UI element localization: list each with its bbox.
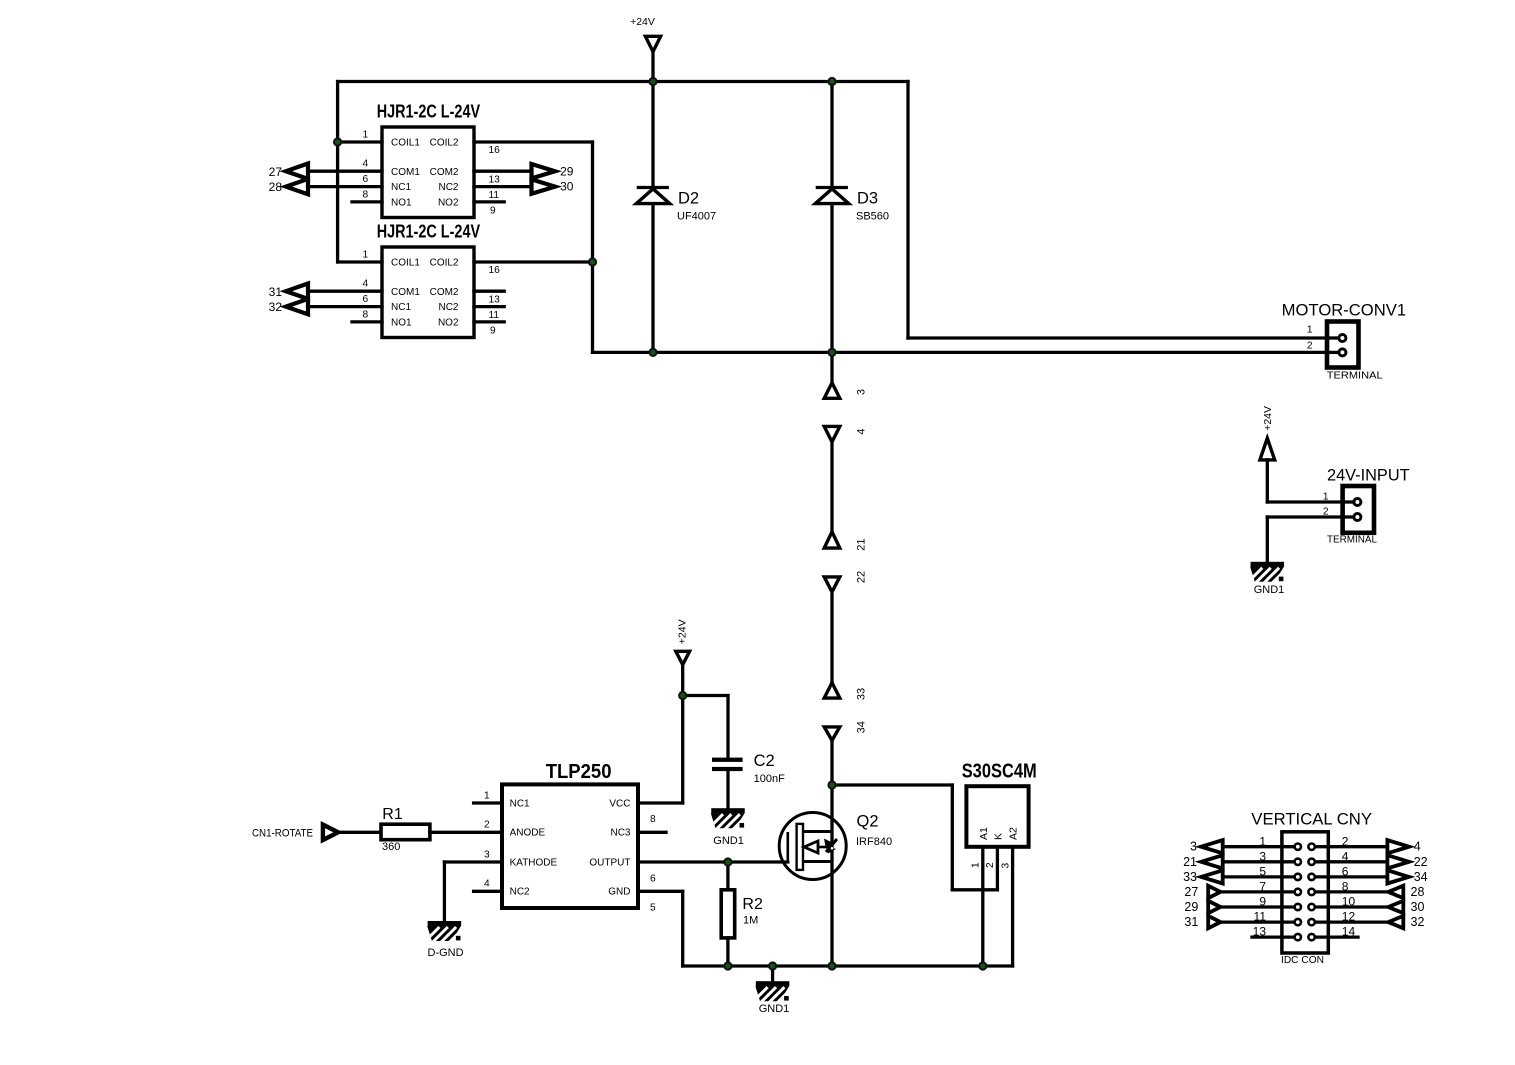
net 29 arrow	[532, 164, 556, 178]
svg-text:SB560: SB560	[856, 211, 889, 223]
wire ground rail	[683, 964, 1013, 967]
svg-text:S30SC4M: S30SC4M	[962, 761, 1037, 783]
wire +24V top rail	[338, 80, 908, 83]
wire S30SC4M pin2 K lead	[996, 847, 999, 890]
svg-text:COM2: COM2	[430, 287, 459, 298]
pin 1 IDC circle	[1295, 844, 1301, 850]
wire S30SC4M link vertical	[951, 785, 954, 890]
junction +24V / C2	[679, 692, 686, 699]
wire IDC pin 8 (net 28)	[1312, 890, 1388, 893]
wire TLP250 GND pin5	[638, 890, 683, 893]
svg-text:NC2: NC2	[438, 182, 458, 193]
svg-text:NO1: NO1	[391, 318, 412, 329]
svg-text:9: 9	[1259, 895, 1266, 909]
connector 24V-INPUT	[1323, 467, 1410, 546]
wire 24V-INPUT pin2 to GND1	[1266, 517, 1269, 562]
svg-text:9: 9	[490, 326, 496, 337]
wire +24V riser to VCC	[681, 665, 684, 803]
wire IDC pin 4 (net 22)	[1312, 860, 1387, 863]
wire R2 bottom lead	[726, 938, 729, 966]
svg-text:3: 3	[1190, 840, 1197, 854]
svg-text:30: 30	[1411, 900, 1425, 914]
net 28 arrow	[1388, 886, 1403, 898]
power +24V (TLP250)	[676, 619, 690, 664]
junction COIL1 tee	[334, 138, 341, 145]
svg-text:11: 11	[1254, 910, 1267, 924]
pin 12 IDC circle	[1308, 919, 1314, 925]
svg-text:1: 1	[1259, 834, 1266, 848]
wire R2 top lead	[726, 862, 729, 890]
net CN1-ROTATE arrow	[323, 825, 338, 840]
ground D-GND	[421, 921, 464, 945]
svg-text:NC3: NC3	[610, 828, 630, 839]
rectifier D1 S30SC4M	[962, 761, 1037, 869]
pin 10 IDC circle	[1308, 904, 1314, 910]
svg-text:6: 6	[650, 874, 656, 885]
wire IDC pin 2 (net 4)	[1312, 845, 1387, 848]
wire HJR1-2C L-24V pin 16 COIL2	[474, 140, 593, 143]
pin 6 IDC circle	[1308, 874, 1314, 880]
svg-text:D-GND: D-GND	[428, 947, 464, 959]
svg-text:D2: D2	[678, 190, 699, 208]
ground GND1 (24V input)	[1244, 562, 1287, 586]
svg-text:100nF: 100nF	[754, 773, 785, 785]
net 34 port arrow	[824, 727, 840, 741]
wire S30SC4M pin1 A1 to rail	[981, 847, 984, 966]
junction rail / Q2 source	[828, 962, 835, 969]
svg-text:4: 4	[856, 429, 868, 435]
svg-text:9: 9	[490, 206, 496, 217]
svg-text:IRF840: IRF840	[856, 836, 892, 848]
svg-text:4: 4	[1342, 849, 1349, 863]
relay HJR1-2C L-24V (coil at y=127)	[363, 100, 501, 217]
net 34 arrow	[1387, 870, 1409, 883]
pin 3 IDC circle	[1295, 859, 1301, 865]
wire +24V to C2	[683, 694, 728, 697]
net 21 arrow	[1201, 855, 1223, 868]
wire R1 to TLP250 ANODE	[430, 831, 502, 834]
junction rail / S30SC4M A1	[979, 962, 986, 969]
svg-text:NO2: NO2	[438, 318, 459, 329]
net 3 arrow	[1201, 840, 1223, 853]
svg-text:3: 3	[1000, 863, 1011, 869]
wire HJR1-2C L-24V pin 16 COIL2	[474, 260, 593, 263]
svg-text:14: 14	[1342, 925, 1356, 939]
wire IDC pin 1 (net 3)	[1223, 845, 1297, 848]
wire +24V symbol drop	[651, 52, 654, 82]
svg-text:TERMINAL: TERMINAL	[1327, 534, 1377, 546]
svg-text:NO2: NO2	[438, 198, 459, 209]
svg-text:8: 8	[650, 814, 656, 825]
opto-coupler U1 TLP250	[484, 761, 656, 913]
relay HJR1-2C L-24V (coil at y=247)	[363, 220, 501, 337]
wire link to S30SC4M pin2 K	[952, 888, 997, 891]
net 27 arrow	[286, 164, 308, 179]
svg-text:COIL1: COIL1	[391, 258, 420, 269]
wire HJR1-2C L-24V pin 6 NC1	[308, 185, 382, 188]
svg-text:A2: A2	[1008, 827, 1020, 840]
svg-text:+24V: +24V	[1262, 406, 1274, 431]
wire drain node to S30SC4M	[832, 783, 952, 786]
wire IDC pin 12 (net 32)	[1312, 920, 1388, 923]
svg-text:KATHODE: KATHODE	[510, 857, 558, 868]
svg-text:+24V: +24V	[677, 619, 689, 644]
svg-text:4: 4	[1414, 840, 1421, 854]
pin 9 IDC circle	[1295, 904, 1301, 910]
svg-text:COM2: COM2	[430, 167, 459, 178]
svg-text:COM1: COM1	[391, 287, 420, 298]
net 33 port arrow	[824, 683, 840, 699]
svg-text:27: 27	[269, 165, 283, 179]
pin 11 IDC circle	[1295, 919, 1301, 925]
wire HJR1-2C L-24V pin 9 NO2 stub	[474, 200, 504, 203]
svg-text:8: 8	[363, 189, 369, 200]
svg-text:OUTPUT: OUTPUT	[589, 857, 630, 868]
svg-text:COIL2: COIL2	[430, 138, 459, 149]
ground GND1 (C2)	[705, 808, 748, 832]
pin 2 24V-INPUT	[1354, 514, 1361, 521]
net 4 port arrow	[824, 426, 840, 442]
wire TLP250 pin4 stub	[474, 890, 502, 893]
svg-text:33: 33	[1183, 870, 1197, 884]
svg-text:22: 22	[1414, 855, 1428, 869]
wire IDC pin 5 (net 33)	[1223, 875, 1297, 878]
svg-text:29: 29	[560, 164, 574, 178]
capacitor C2	[712, 752, 785, 785]
svg-text:D3: D3	[857, 190, 878, 208]
net 4 arrow	[1387, 840, 1409, 853]
junction rail / R2	[724, 962, 731, 969]
wire IDC pin 7 (net 27)	[1220, 890, 1297, 893]
wire IDC pin 3 (net 21)	[1223, 860, 1297, 863]
wire MOTOR-CONV1 pin1 inside stub	[1329, 336, 1341, 339]
svg-text:CN1-ROTATE: CN1-ROTATE	[252, 827, 313, 839]
wire IDC pin 10 (net 30)	[1312, 905, 1388, 908]
svg-text:2: 2	[484, 820, 490, 831]
svg-text:31: 31	[1184, 915, 1198, 929]
svg-text:NC2: NC2	[510, 887, 530, 898]
svg-text:34: 34	[1414, 870, 1428, 884]
wire KATHODE to D-GND	[443, 862, 446, 921]
svg-text:3: 3	[484, 849, 490, 860]
svg-text:4: 4	[363, 159, 369, 170]
net 31 arrow	[286, 284, 308, 299]
junction bottom rail / D3	[828, 349, 835, 356]
wire HJR1-2C L-24V pin 4 COM1	[308, 290, 382, 293]
svg-text:NC1: NC1	[510, 798, 530, 809]
svg-text:31: 31	[269, 285, 283, 299]
svg-text:A1: A1	[978, 827, 990, 840]
net 3 port arrow	[824, 383, 840, 399]
junction rail / GND1	[769, 962, 776, 969]
wire HJR1-2C L-24V pin 1 COIL1	[338, 140, 382, 143]
wire HJR1-2C L-24V pin 11 NC2	[474, 185, 532, 188]
svg-text:6: 6	[363, 294, 369, 305]
svg-text:TLP250: TLP250	[546, 761, 612, 783]
svg-text:R2: R2	[742, 896, 763, 913]
svg-text:COIL1: COIL1	[391, 138, 420, 149]
wire HJR1-2C L-24V pin 4 COM1	[308, 170, 382, 173]
svg-text:2: 2	[985, 862, 996, 868]
wire left vertical to relay coils	[336, 82, 339, 263]
pin 1 MOTOR-CONV1	[1339, 335, 1346, 342]
svg-text:10: 10	[1342, 895, 1356, 909]
net 29 arrow	[1208, 901, 1220, 913]
svg-text:HJR1-2C L-24V: HJR1-2C L-24V	[377, 100, 481, 121]
net 28 arrow	[286, 179, 308, 194]
svg-text:1: 1	[363, 129, 369, 140]
svg-text:+24V: +24V	[630, 16, 655, 28]
svg-text:NC1: NC1	[391, 302, 411, 313]
svg-text:27: 27	[1184, 885, 1198, 899]
svg-text:13: 13	[489, 174, 501, 185]
svg-text:11: 11	[489, 190, 500, 201]
svg-text:K: K	[992, 833, 1004, 840]
net 32 arrow	[286, 299, 308, 314]
svg-text:GND1: GND1	[759, 1003, 790, 1015]
wire 24V-INPUT pin 1	[1267, 500, 1353, 503]
wire +24V to 24V-INPUT pin1	[1266, 460, 1269, 502]
svg-text:4: 4	[363, 279, 369, 290]
wire HJR1-2C L-24V pin 13 COM2	[474, 170, 532, 173]
ground GND1 (rail)	[750, 981, 793, 1005]
svg-text:4: 4	[484, 879, 490, 890]
junction COIL2 tee	[589, 258, 596, 265]
svg-text:GND: GND	[608, 887, 630, 898]
junction gate / R2	[724, 858, 731, 865]
connector MOTOR-CONV1	[1282, 301, 1406, 381]
svg-text:11: 11	[489, 310, 500, 321]
pin 7 IDC circle	[1295, 889, 1301, 895]
wire S30SC4M pin3 A2 to rail	[1011, 847, 1014, 966]
svg-text:UF4007: UF4007	[677, 211, 716, 223]
svg-text:6: 6	[363, 174, 369, 185]
net 30 arrow	[532, 179, 556, 193]
connector VERTICAL CNY IDC CON	[1251, 810, 1372, 966]
wire net34 to drain node	[830, 740, 833, 785]
wire right vertical to MOTOR-CONV1 pin1	[906, 82, 909, 339]
wire Q2 drain-source vertical	[830, 785, 833, 966]
svg-text:30: 30	[560, 180, 574, 194]
svg-text:34: 34	[856, 721, 868, 733]
wire TLP250 OUTPUT to Q2 gate	[638, 860, 788, 863]
wire net4-net21	[830, 442, 833, 532]
pin 13 IDC circle	[1295, 934, 1301, 940]
wire TLP250 VCC pin8	[638, 801, 683, 804]
svg-text:1: 1	[484, 790, 490, 801]
wire pin5 down to ground rail	[681, 891, 684, 966]
svg-text:7: 7	[1259, 880, 1266, 894]
wire net22-net33	[830, 592, 833, 683]
svg-text:MOTOR-CONV1: MOTOR-CONV1	[1282, 301, 1406, 319]
wire HJR1-2C L-24V pin 1 COIL1	[338, 260, 382, 263]
junction rail / D3	[828, 78, 835, 85]
svg-text:C2: C2	[754, 752, 775, 770]
svg-text:3: 3	[856, 389, 868, 395]
net 22 port arrow	[824, 577, 840, 592]
resistor R1	[381, 806, 430, 853]
net 32 arrow	[1388, 916, 1403, 928]
net 33 arrow	[1201, 870, 1223, 883]
svg-text:5: 5	[650, 902, 656, 913]
diode D2	[636, 188, 716, 223]
wire IDC pin 6 (net 34)	[1312, 875, 1387, 878]
svg-text:GND1: GND1	[713, 835, 744, 847]
wire TLP250 pin1 stub	[474, 801, 502, 804]
pin 4 IDC circle	[1308, 859, 1314, 865]
wire C2 bottom lead	[726, 771, 729, 808]
pin 5 IDC circle	[1295, 874, 1301, 880]
svg-text:21: 21	[1183, 855, 1197, 869]
svg-text:28: 28	[1411, 885, 1425, 899]
svg-text:12: 12	[1342, 910, 1356, 924]
svg-text:Q2: Q2	[857, 813, 879, 831]
svg-text:VCC: VCC	[609, 798, 630, 809]
pin 2 IDC circle	[1308, 844, 1314, 850]
net 21 port arrow	[824, 532, 840, 548]
svg-text:ANODE: ANODE	[510, 828, 546, 839]
svg-text:R1: R1	[382, 806, 403, 823]
power +24V (top)	[630, 16, 661, 52]
wire COIL2 vertical to bottom rail	[591, 142, 594, 352]
svg-text:HJR1-2C L-24V: HJR1-2C L-24V	[377, 220, 481, 241]
svg-text:NO1: NO1	[391, 198, 412, 209]
svg-text:1M: 1M	[743, 915, 758, 927]
wire 24V-INPUT pin2 inside stub	[1344, 515, 1356, 518]
svg-text:IDC CON: IDC CON	[1281, 954, 1324, 966]
transistor Q2 IRF840	[779, 813, 892, 880]
svg-text:1: 1	[970, 862, 981, 868]
wire IDC pin 11 (net 31)	[1220, 920, 1297, 923]
svg-text:22: 22	[856, 571, 868, 583]
wire MOTOR-CONV1 pin 1	[908, 336, 1339, 339]
wire rail to GND1	[771, 966, 774, 981]
svg-text:24V-INPUT: 24V-INPUT	[1327, 467, 1410, 485]
svg-text:8: 8	[363, 309, 369, 320]
wire CN1-ROTATE to R1	[338, 831, 381, 834]
diode D3	[815, 188, 889, 223]
power +24V (24V-INPUT)	[1260, 406, 1275, 460]
svg-text:32: 32	[1411, 915, 1425, 929]
wire IDC pin 14 stub	[1312, 935, 1358, 938]
svg-text:5: 5	[1259, 865, 1266, 879]
net 22 arrow	[1387, 855, 1409, 868]
wire 24V-INPUT pin1 inside stub	[1344, 500, 1356, 503]
svg-text:1: 1	[1307, 325, 1313, 336]
wire HJR1-2C L-24V pin 11 stub	[474, 305, 504, 308]
svg-text:2: 2	[1307, 340, 1313, 351]
svg-text:COM1: COM1	[391, 167, 420, 178]
svg-text:16: 16	[489, 145, 501, 156]
svg-text:COIL2: COIL2	[430, 258, 459, 269]
svg-text:1: 1	[363, 249, 369, 260]
svg-text:21: 21	[856, 538, 868, 550]
wire HJR1-2C L-24V pin 8 NO1 stub	[352, 200, 382, 203]
svg-text:6: 6	[1342, 865, 1349, 879]
net 31 arrow	[1208, 916, 1220, 928]
svg-text:13: 13	[489, 294, 501, 305]
svg-text:NC1: NC1	[391, 182, 411, 193]
svg-text:1: 1	[1323, 491, 1329, 502]
svg-text:TERMINAL: TERMINAL	[1327, 370, 1383, 382]
net 30 arrow	[1388, 901, 1403, 913]
wire D2 branch	[651, 82, 654, 353]
wire IDC pin 9 (net 29)	[1220, 905, 1297, 908]
svg-text:3: 3	[1259, 849, 1266, 863]
wire HJR1-2C L-24V pin 8 NO1 stub	[352, 320, 382, 323]
wire 24V-INPUT pin 2	[1267, 515, 1353, 518]
wire TLP250 NC3 stub	[638, 831, 666, 834]
pin 2 MOTOR-CONV1	[1339, 349, 1346, 356]
pin 8 IDC circle	[1308, 889, 1314, 895]
svg-text:360: 360	[382, 841, 400, 853]
svg-text:33: 33	[856, 688, 868, 700]
svg-text:NC2: NC2	[438, 302, 458, 313]
net 27 arrow	[1208, 886, 1220, 898]
svg-text:8: 8	[1342, 880, 1349, 894]
pin 14 IDC circle	[1308, 934, 1314, 940]
wire IDC pin 13 stub	[1252, 935, 1297, 938]
wire MOTOR-CONV1 pin2 inside stub	[1329, 351, 1341, 354]
wire HJR1-2C L-24V pin 13 stub	[474, 290, 504, 293]
junction drain node	[828, 781, 835, 788]
svg-text:28: 28	[269, 180, 283, 194]
wire C2 top lead	[726, 696, 729, 758]
wire TLP250 KATHODE	[444, 860, 502, 863]
wire HJR1-2C L-24V pin 6 NC1	[308, 305, 382, 308]
wire D3 branch	[830, 82, 833, 353]
resistor R2	[721, 890, 763, 938]
svg-text:VERTICAL CNY: VERTICAL CNY	[1251, 810, 1372, 828]
wire HJR1-2C L-24V pin 9 NO2 stub	[474, 320, 504, 323]
svg-text:13: 13	[1253, 925, 1267, 939]
svg-text:2: 2	[1342, 834, 1349, 848]
svg-text:GND1: GND1	[1254, 584, 1285, 596]
pin 1 24V-INPUT	[1354, 499, 1361, 506]
svg-text:32: 32	[269, 300, 283, 314]
wire bottom rail to MOTOR-CONV1 pin 2	[593, 351, 1340, 354]
svg-text:2: 2	[1323, 507, 1329, 518]
svg-text:16: 16	[489, 265, 501, 276]
svg-text:29: 29	[1184, 900, 1198, 914]
wire to net 3 port	[830, 352, 833, 382]
junction bottom rail / D2	[649, 349, 656, 356]
junction +24V / D2	[649, 78, 656, 85]
